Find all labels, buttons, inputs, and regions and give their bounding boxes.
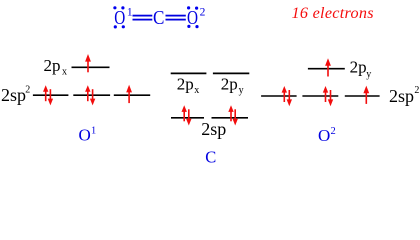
label 2px of C diagram: [177, 74, 200, 95]
electron pair arrows on O1 2sp2 line 1: [43, 85, 53, 105]
label 2py of C diagram: [221, 74, 244, 95]
orbital line 2py of O2: [308, 68, 345, 70]
electron pair arrows on C 2sp line 1: [182, 105, 192, 125]
svg-text:x: x: [194, 85, 199, 96]
orbital line 2py of C: [213, 72, 249, 74]
orbital line 2 of C 2sp: [212, 117, 249, 119]
svg-text:2: 2: [25, 85, 30, 96]
svg-text:2p: 2p: [44, 56, 61, 75]
electron arrow up on O1 2sp2 line 3: [126, 85, 132, 103]
svg-text:16 electrons: 16 electrons: [292, 4, 374, 22]
svg-text:x: x: [62, 67, 67, 78]
orbital line 2 of O2 2sp2: [302, 95, 338, 97]
svg-text:C: C: [153, 7, 164, 29]
svg-text:2p: 2p: [221, 74, 238, 93]
svg-text:2p: 2p: [350, 57, 367, 76]
svg-text:y: y: [366, 69, 371, 80]
electron arrow up on O2 2py: [325, 58, 331, 76]
orbital line 3 of O1 2sp2: [114, 94, 150, 96]
orbital line 1 of O2 2sp2: [261, 95, 297, 97]
label atom O2: [318, 126, 336, 145]
label 2px of O1 diagram: [44, 56, 68, 78]
lone pair dots above O1: [113, 6, 124, 9]
electron arrow up on O2 2sp2 line 3: [363, 86, 369, 104]
electron pair arrows on C 2sp line 2: [228, 105, 238, 125]
orbital line 1 of O1 2sp2: [33, 94, 69, 96]
atom O2 in Lewis structure: [187, 7, 206, 30]
svg-text:2sp: 2sp: [389, 86, 414, 106]
electron pair arrows on O2 2sp2 line 1: [282, 86, 292, 106]
orbital line 2 of O1 2sp2: [73, 94, 110, 96]
lone pair dots below O2: [187, 25, 198, 28]
svg-text:2sp: 2sp: [1, 85, 26, 105]
electron pair arrows on O1 2sp2 line 2: [85, 85, 95, 105]
double bond O1=C: [133, 15, 153, 21]
svg-text:C: C: [205, 148, 216, 167]
atom O1 in Lewis structure: [114, 7, 133, 30]
electron pair arrows on O2 2sp2 line 2: [323, 86, 333, 106]
electron arrow up on O1 2px: [85, 54, 91, 72]
label 2sp2 of O2 diagram: [389, 85, 419, 106]
svg-text:O: O: [79, 126, 91, 145]
lone pair dots above O2: [187, 6, 198, 9]
label 2py of O2 diagram: [350, 57, 372, 80]
lone pair dots below O1: [114, 25, 125, 28]
svg-text:1: 1: [91, 126, 96, 137]
svg-text:1: 1: [127, 7, 133, 19]
svg-text:2p: 2p: [177, 74, 194, 93]
double bond C=O2: [166, 15, 186, 21]
label 2sp2 of O1 diagram: [1, 85, 30, 106]
orbital line 2px of C: [171, 72, 207, 74]
orbital line 1 of C 2sp: [171, 117, 204, 119]
svg-text:2: 2: [331, 126, 336, 137]
svg-text:y: y: [239, 85, 244, 96]
label atom O1: [79, 126, 97, 145]
orbital line 3 of O2 2sp2: [345, 95, 380, 97]
orbital line 2px of O1: [72, 66, 110, 68]
svg-text:2: 2: [200, 7, 206, 19]
svg-text:O: O: [318, 126, 330, 145]
svg-text:2sp: 2sp: [201, 119, 226, 139]
svg-text:2: 2: [414, 85, 419, 96]
